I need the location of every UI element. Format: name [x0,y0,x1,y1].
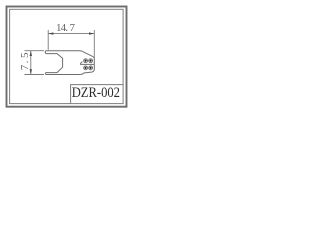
svg-text:.: . [19,60,31,63]
svg-text:5: 5 [19,52,31,58]
svg-text:.: . [65,22,68,34]
svg-text:DZR-002: DZR-002 [72,84,120,100]
svg-text:7: 7 [19,64,31,70]
svg-text:7: 7 [69,22,75,34]
